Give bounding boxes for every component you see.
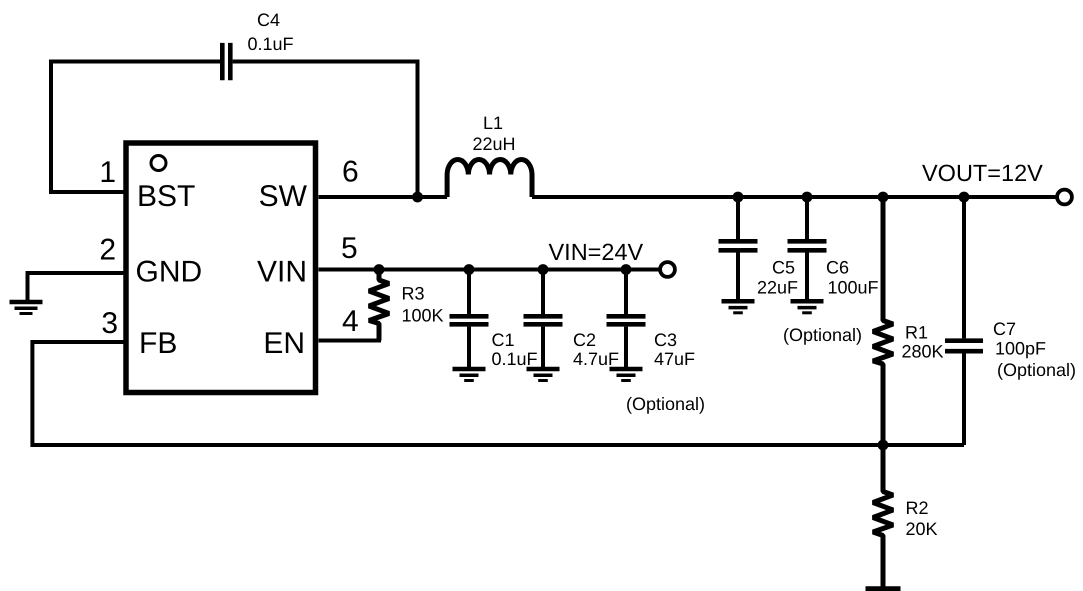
svg-text:C5: C5 [772, 258, 795, 278]
wire GND pin to ground [28, 273, 124, 301]
resistor R2 [873, 445, 893, 588]
wire FB feedback bottom [32, 342, 964, 445]
terminal VIN [660, 262, 675, 277]
svg-text:280K: 280K [902, 342, 944, 362]
inductor L1 [447, 159, 532, 197]
wire VIN rail [319, 268, 660, 272]
svg-text:C4: C4 [257, 10, 280, 30]
svg-text:VIN=24V: VIN=24V [549, 239, 644, 265]
pin 1 indicator circle [151, 156, 166, 171]
capacitor C5 [719, 197, 758, 299]
ground (GND pin) [10, 302, 43, 314]
svg-text:100uF: 100uF [828, 278, 879, 298]
svg-text:0.1uF: 0.1uF [248, 34, 294, 54]
capacitor C4 plates [222, 43, 230, 80]
svg-text:4: 4 [342, 305, 359, 338]
junction dot FB node [878, 440, 889, 451]
svg-text:C2: C2 [573, 330, 596, 350]
svg-text:C3: C3 [654, 330, 677, 350]
junction dot C6 [802, 192, 813, 203]
svg-text:C1: C1 [492, 330, 515, 350]
terminal VOUT [1057, 190, 1072, 205]
svg-text:VIN: VIN [257, 256, 307, 289]
svg-text:2: 2 [99, 234, 116, 267]
svg-text:22uH: 22uH [473, 134, 516, 154]
svg-text:(Optional): (Optional) [626, 394, 705, 414]
svg-text:L1: L1 [483, 113, 503, 133]
junction dot C7 top [959, 192, 970, 203]
junction dot C1 [464, 264, 475, 275]
svg-text:100pF: 100pF [995, 339, 1046, 359]
junction dot C2 [538, 264, 549, 275]
svg-text:C6: C6 [826, 258, 849, 278]
svg-text:R3: R3 [402, 284, 425, 304]
wire SW pin to inductor [319, 195, 448, 199]
svg-text:47uF: 47uF [654, 349, 695, 369]
svg-text:R2: R2 [906, 498, 929, 518]
junction dot C3 [621, 264, 632, 275]
junction dot SW node [412, 192, 423, 203]
svg-text:VOUT=12V: VOUT=12V [922, 160, 1043, 186]
svg-text:R1: R1 [905, 323, 928, 343]
ground (R2 bottom) [866, 586, 901, 591]
ground (C3) [610, 369, 643, 381]
svg-text:(Optional): (Optional) [783, 325, 862, 345]
ground (C5) [722, 301, 755, 313]
ground (C6) [791, 301, 824, 313]
resistor R3 [369, 270, 389, 341]
wire VOUT rail [532, 195, 1057, 199]
junction dot C5 [733, 192, 744, 203]
svg-text:C7: C7 [993, 319, 1016, 339]
ground (C2) [527, 369, 560, 381]
capacitor C1 [450, 270, 489, 368]
wire EN pin [319, 339, 382, 343]
svg-text:SW: SW [259, 180, 308, 213]
wire BST loop (pin1 to top-left, across top) [51, 62, 220, 193]
ground (C1) [453, 369, 486, 381]
svg-text:20K: 20K [906, 519, 938, 539]
capacitor C2 [524, 270, 563, 368]
svg-text:GND: GND [136, 256, 203, 289]
svg-text:FB: FB [139, 327, 177, 360]
svg-text:1: 1 [99, 156, 116, 189]
svg-text:EN: EN [263, 327, 305, 360]
svg-text:3: 3 [101, 307, 118, 340]
wire C4 to SW vertical [233, 62, 418, 198]
junction dot R3 top [374, 264, 385, 275]
capacitor C3 [607, 270, 646, 368]
resistor R1 [873, 197, 893, 445]
junction dot R1 top [878, 192, 889, 203]
capacitor C6 [788, 197, 827, 299]
svg-text:5: 5 [341, 232, 358, 265]
svg-text:6: 6 [342, 156, 359, 189]
svg-text:4.7uF: 4.7uF [573, 349, 619, 369]
svg-text:(Optional): (Optional) [997, 360, 1076, 380]
svg-text:100K: 100K [402, 306, 444, 326]
IC U1 body [126, 143, 316, 393]
svg-text:BST: BST [137, 180, 195, 213]
capacitor C7 [945, 197, 983, 445]
svg-text:22uF: 22uF [757, 278, 798, 298]
svg-text:0.1uF: 0.1uF [492, 349, 538, 369]
